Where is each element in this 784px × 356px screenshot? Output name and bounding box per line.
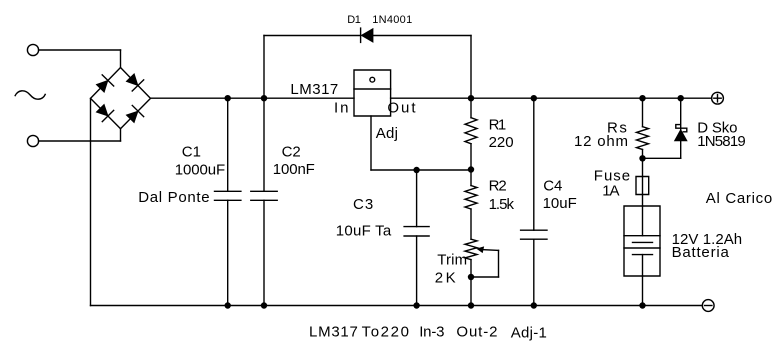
svg-text:R1: R1 [489, 117, 506, 134]
svg-text:Al Carico: Al Carico [706, 190, 773, 207]
svg-text:R2: R2 [489, 178, 507, 195]
svg-text:C4: C4 [543, 178, 562, 195]
svg-text:C2: C2 [282, 144, 301, 161]
svg-text:LM317: LM317 [290, 81, 338, 98]
svg-text:2K: 2K [435, 270, 458, 287]
svg-text:C3: C3 [353, 196, 374, 213]
svg-text:1A: 1A [602, 182, 619, 199]
svg-text:Adj-1: Adj-1 [511, 325, 547, 342]
svg-text:1000uF: 1000uF [175, 162, 225, 179]
svg-text:1N4001: 1N4001 [372, 14, 412, 26]
svg-text:10uF Ta: 10uF Ta [336, 222, 392, 239]
svg-text:1N5819: 1N5819 [697, 133, 745, 150]
svg-text:100nF: 100nF [273, 161, 315, 178]
svg-text:In-3: In-3 [419, 324, 444, 341]
svg-text:To220: To220 [362, 324, 411, 341]
svg-text:10uF: 10uF [543, 195, 577, 212]
svg-text:LM317: LM317 [309, 324, 359, 341]
svg-text:12 ohm: 12 ohm [574, 133, 629, 150]
svg-text:220: 220 [489, 134, 514, 151]
svg-text:Out-2: Out-2 [456, 324, 498, 341]
svg-text:1.5k: 1.5k [489, 196, 515, 213]
svg-text:Adj: Adj [376, 125, 398, 142]
svg-text:Batteria: Batteria [672, 244, 730, 261]
svg-text:Out: Out [387, 99, 417, 116]
svg-text:C1: C1 [182, 143, 201, 160]
svg-text:D1: D1 [347, 14, 361, 26]
svg-text:In: In [334, 99, 351, 116]
svg-text:Dal Ponte: Dal Ponte [138, 189, 210, 206]
svg-text:Trim: Trim [437, 252, 467, 269]
